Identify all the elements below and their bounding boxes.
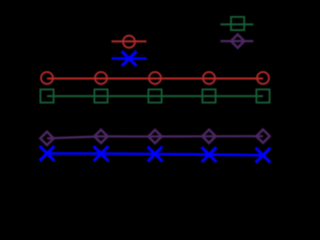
legend group 1: red entry bbox=[112, 36, 147, 48]
series 3: purple line with diamond markers bbox=[40, 130, 269, 146]
series 2: green line with square markers bbox=[40, 89, 269, 102]
chart canvas bbox=[0, 0, 274, 206]
legend group 2: purple entry bbox=[220, 34, 253, 47]
series 4: blue line with X markers bbox=[40, 146, 271, 163]
legend group 2: green entry bbox=[220, 17, 253, 30]
legend group 1: blue entry bbox=[112, 51, 147, 66]
series 1: red line with circle markers bbox=[41, 72, 269, 84]
